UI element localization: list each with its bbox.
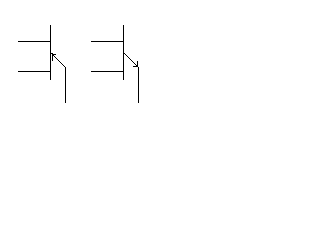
wire: Q1 lower-left lead xyxy=(18,71,51,72)
Q1 arrowhead vertical barb xyxy=(52,53,53,61)
Q1 arrowhead horizontal barb (points toward bar) xyxy=(52,54,56,55)
wire: Q2 emitter lead down xyxy=(138,67,139,103)
wire: Q1 upper-left lead xyxy=(18,41,51,42)
wire: Q2 upper-left lead xyxy=(91,41,124,42)
wire: Q2 lower-left lead xyxy=(91,71,124,72)
Q2 emitter diagonal (45-degree single-pixel staircase) xyxy=(124,53,138,67)
wire: Q1 emitter lead down xyxy=(65,67,66,103)
Q2 arrowhead horizontal barb (points away from bar) xyxy=(133,66,137,67)
Q1 base bar xyxy=(50,25,51,80)
transistor Q1 (PNP-style, left symbol) xyxy=(18,25,66,103)
Q1 emitter diagonal (45-degree single-pixel staircase) xyxy=(51,53,65,67)
transistor Q2 (NPN-style, right symbol) xyxy=(91,25,139,103)
Q2 base bar xyxy=(123,25,124,80)
Q2 arrowhead vertical barb xyxy=(137,61,138,67)
